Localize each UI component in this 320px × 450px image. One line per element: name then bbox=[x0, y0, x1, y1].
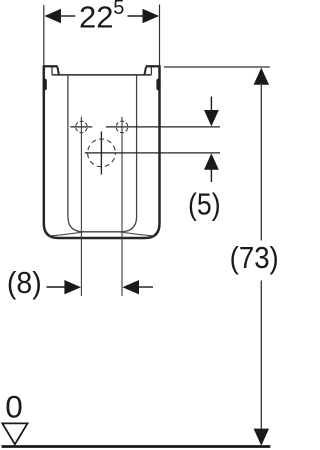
fixture left tab inner line bbox=[51, 67, 53, 75]
label: dimension 22^5 bbox=[79, 0, 124, 34]
left tap hole centerline vertical (extends to (8) dim) bbox=[80, 117, 82, 296]
left tap hole crosshair horizontal bbox=[70, 126, 92, 128]
svg-text:0: 0 bbox=[5, 389, 23, 425]
fixture left tab slant edge bbox=[57, 67, 59, 75]
wire: (8) left tail bbox=[47, 286, 67, 288]
arrow: (73) down arrow bbox=[254, 429, 269, 446]
wire: top dim left tail bbox=[60, 15, 76, 17]
wire: top dimension left extension line bbox=[43, 5, 45, 66]
svg-text:(5): (5) bbox=[188, 188, 221, 222]
wire: (5) up arrow tail bbox=[210, 168, 212, 182]
arrow: top dim right arrow bbox=[143, 9, 160, 23]
arrow: (5) up arrow bbox=[204, 153, 219, 169]
right tap hole (dashed circle) bbox=[116, 121, 128, 133]
floor line bbox=[2, 445, 271, 448]
fixture top left tab bbox=[43, 65, 58, 67]
right tap hole centerline vertical (extends to (8) dim) bbox=[121, 117, 123, 296]
fixture top right tab bbox=[146, 65, 161, 67]
svg-text:22: 22 bbox=[79, 0, 113, 34]
arrow: (73) up arrow bbox=[254, 68, 269, 85]
arrow: (8) left-pointing arrow bbox=[122, 280, 139, 294]
datum triangle bbox=[2, 423, 27, 444]
drain hole crosshair vertical bbox=[100, 131, 102, 174]
fixture bottom left taper line bbox=[50, 232, 84, 236]
svg-text:(73): (73) bbox=[230, 241, 279, 276]
arrow: (8) right-pointing arrow bbox=[64, 280, 81, 294]
fixture right tab slant edge bbox=[145, 67, 147, 75]
wire: (5) down arrow tail bbox=[210, 97, 212, 113]
drain hole (large dashed circle) bbox=[88, 139, 116, 167]
fixture bottom right taper line bbox=[120, 232, 154, 236]
wire: top dim right tail bbox=[128, 15, 145, 17]
fixture outer outline (thick) bbox=[44, 66, 160, 238]
wire: (73) dimension line upper segment bbox=[260, 83, 262, 241]
left fixing bolt mark bbox=[43, 79, 47, 91]
label: dimension (5) bbox=[188, 188, 221, 222]
label: dimension (8) bbox=[7, 266, 42, 300]
arrow: (5) down arrow bbox=[204, 110, 219, 126]
wire: (8) right tail bbox=[137, 286, 153, 288]
wire: (73) top extension line bbox=[164, 66, 270, 68]
fixture front rim line bbox=[52, 74, 151, 76]
svg-text:5: 5 bbox=[113, 0, 124, 19]
left tap hole (dashed circle) bbox=[76, 121, 88, 133]
wire: top dimension right extension line bbox=[159, 5, 161, 67]
fixture inner basin outline bbox=[68, 75, 137, 232]
fixture right tab inner line bbox=[150, 67, 152, 75]
right tap hole crosshair horizontal / (5) extension line 1 bbox=[106, 126, 220, 128]
right fixing bolt mark bbox=[156, 79, 160, 91]
arrow: top dim left arrow bbox=[44, 9, 61, 23]
label: dimension (73) bbox=[230, 241, 279, 276]
drain hole crosshair horizontal / (5) extension line 2 bbox=[85, 152, 220, 154]
wire: (73) dimension line lower segment bbox=[260, 281, 262, 432]
svg-text:(8): (8) bbox=[7, 266, 42, 300]
